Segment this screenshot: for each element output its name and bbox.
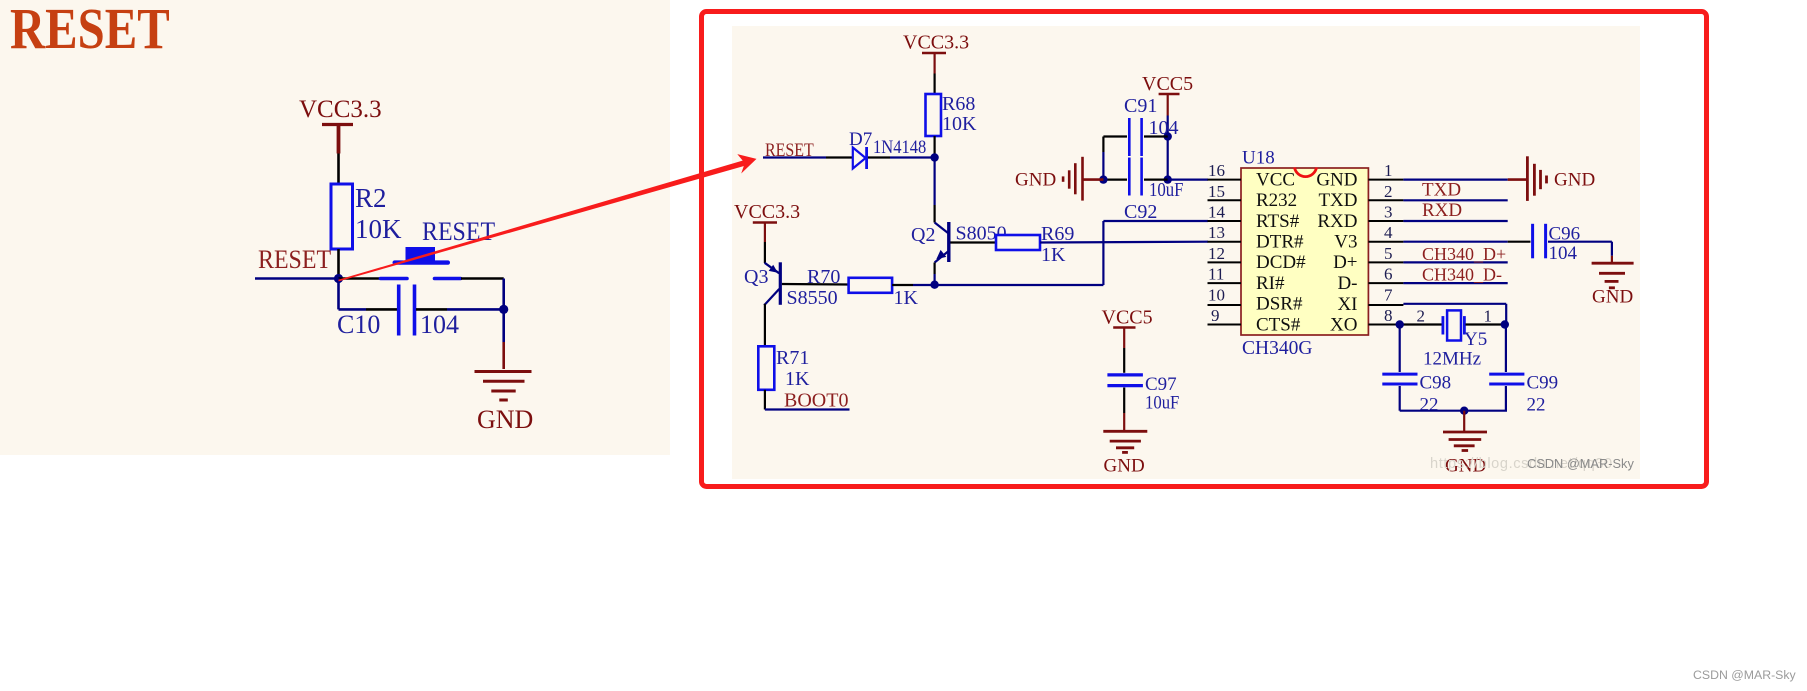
wire pin5 D+ xyxy=(1403,261,1507,263)
svg-text:U18: U18 xyxy=(1242,148,1275,169)
pin name DTR# xyxy=(1256,232,1304,253)
wire pin4 to C96 xyxy=(1403,241,1530,243)
svg-text:CH340_D+: CH340_D+ xyxy=(1422,244,1506,264)
annotation red box xyxy=(702,12,1707,487)
junction crystal left xyxy=(1396,320,1404,328)
wire diode to junction xyxy=(868,156,935,158)
capacitor C10 104 xyxy=(337,285,459,340)
background sheet left xyxy=(0,0,670,455)
svg-text:10K: 10K xyxy=(355,214,402,244)
svg-text:R71: R71 xyxy=(776,347,809,369)
wire Q3 collector down xyxy=(764,304,766,347)
junction diode-R68 xyxy=(930,153,938,161)
background sheet right xyxy=(732,26,1640,479)
pin number 9 xyxy=(1211,306,1220,325)
wire pin2 TXD xyxy=(1403,199,1507,201)
pin name XO xyxy=(1330,315,1357,336)
wire crystal loop bottom xyxy=(1400,410,1507,412)
resistor R68 10K xyxy=(926,93,978,136)
svg-text:CSDN @MAR-Sky: CSDN @MAR-Sky xyxy=(1693,668,1797,682)
wire pin7 to crystal right xyxy=(1403,304,1506,325)
diode D7 1N4148 xyxy=(849,129,926,169)
svg-text:CH340_D-: CH340_D- xyxy=(1422,265,1502,285)
pin number 13 xyxy=(1208,223,1225,242)
wire Q3 base to R70 xyxy=(782,283,849,286)
net label RESET left xyxy=(258,246,331,274)
svg-text:4: 4 xyxy=(1384,223,1393,242)
wire junction to Q2 collector xyxy=(933,158,935,223)
svg-text:XI: XI xyxy=(1337,294,1357,315)
wire VCC to R68 xyxy=(933,74,935,95)
wire VCC5 to C97 xyxy=(1123,348,1125,373)
svg-text:Q2: Q2 xyxy=(911,224,935,246)
wire pin3 RXD xyxy=(1403,220,1507,222)
wire R2 to node xyxy=(337,249,340,279)
svg-text:104: 104 xyxy=(420,310,459,339)
pin number 16 xyxy=(1208,161,1225,180)
ground GND bar right xyxy=(1508,156,1595,201)
resistor R71 1K xyxy=(758,346,810,390)
wire node to button xyxy=(339,277,380,280)
pin name D- xyxy=(1337,273,1357,294)
ground GND left xyxy=(475,342,534,434)
power VCC3.3 Q3 xyxy=(734,201,800,263)
svg-text:DCD#: DCD# xyxy=(1256,252,1306,273)
pin number 8 xyxy=(1384,306,1393,325)
pin name CTS# xyxy=(1256,314,1301,335)
svg-text:10K: 10K xyxy=(942,113,977,135)
pushbutton RESET xyxy=(381,218,496,278)
wire pin8 to crystal xyxy=(1403,323,1442,325)
svg-text:GND: GND xyxy=(1592,286,1633,307)
svg-text:1: 1 xyxy=(1484,306,1493,325)
svg-text:RESET: RESET xyxy=(10,0,170,61)
svg-text:GND: GND xyxy=(1316,169,1357,190)
svg-text:VCC5: VCC5 xyxy=(1142,73,1193,95)
capacitor C97 10uF xyxy=(1107,374,1179,413)
svg-text:5: 5 xyxy=(1384,244,1393,263)
wire crystal loop right xyxy=(1505,325,1507,411)
svg-text:RTS#: RTS# xyxy=(1256,211,1300,232)
svg-text:C98: C98 xyxy=(1420,373,1452,394)
junction crystal right xyxy=(1501,320,1509,328)
pin name RI# xyxy=(1256,273,1285,294)
pin number 12 xyxy=(1208,244,1225,263)
annotation arrow xyxy=(338,154,756,281)
svg-text:1: 1 xyxy=(1384,161,1393,180)
wire R69 to pin13 xyxy=(1040,241,1208,244)
svg-text:VCC3.3: VCC3.3 xyxy=(734,201,800,223)
junction C92 left xyxy=(1099,175,1107,183)
pin name TXD xyxy=(1318,190,1357,211)
svg-text:CH340G: CH340G xyxy=(1242,338,1312,359)
svg-text:BOOT0: BOOT0 xyxy=(784,390,848,412)
capacitor C92 10uF xyxy=(1124,158,1184,224)
wire crystal to junction right xyxy=(1466,323,1505,325)
svg-text:RXD: RXD xyxy=(1422,200,1462,221)
title RESET xyxy=(10,0,170,61)
pin number 7 xyxy=(1384,285,1393,304)
power VCC3.3 left xyxy=(299,96,382,154)
svg-text:DTR#: DTR# xyxy=(1256,232,1304,253)
svg-text:CTS#: CTS# xyxy=(1256,314,1301,335)
svg-text:VCC3.3: VCC3.3 xyxy=(903,32,969,54)
svg-text:9: 9 xyxy=(1211,306,1220,325)
pin number 1 xyxy=(1384,161,1393,180)
svg-text:D+: D+ xyxy=(1333,252,1357,273)
net label TXD xyxy=(1422,179,1461,200)
svg-text:GND: GND xyxy=(1015,169,1056,190)
pin number 4 xyxy=(1384,223,1393,242)
wire to ground xyxy=(502,309,505,342)
svg-text:GND: GND xyxy=(477,405,533,434)
svg-text:1K: 1K xyxy=(894,287,919,309)
svg-text:GND: GND xyxy=(1104,456,1145,477)
svg-text:VCC3.3: VCC3.3 xyxy=(299,96,382,123)
junction C91 right xyxy=(1164,132,1172,140)
pin number 15 xyxy=(1208,182,1225,201)
svg-text:Q3: Q3 xyxy=(744,266,768,288)
capacitor C99 22 xyxy=(1489,373,1558,416)
svg-text:10uF: 10uF xyxy=(1149,179,1184,201)
svg-text:6: 6 xyxy=(1384,265,1393,284)
resistor R69 1K xyxy=(996,223,1074,266)
wire C96 to ground xyxy=(1548,242,1612,256)
pin name RXD xyxy=(1317,211,1357,232)
watermark faint url xyxy=(1430,456,1613,472)
svg-text:15: 15 xyxy=(1208,182,1225,201)
svg-text:DSR#: DSR# xyxy=(1256,294,1303,315)
junction node RESET xyxy=(334,274,343,283)
svg-text:R68: R68 xyxy=(942,93,975,115)
wire VCC3.3 to R2 xyxy=(337,154,340,185)
svg-text:3: 3 xyxy=(1384,203,1393,222)
wire crystal loop left xyxy=(1399,325,1401,411)
svg-text:S8550: S8550 xyxy=(787,287,838,309)
ground GND bar left xyxy=(1015,157,1103,201)
svg-text:104: 104 xyxy=(1549,243,1578,264)
svg-text:2: 2 xyxy=(1417,306,1426,325)
svg-text:V3: V3 xyxy=(1334,232,1357,253)
pin name R232 xyxy=(1256,190,1297,211)
svg-text:XO: XO xyxy=(1330,315,1357,336)
svg-text:D7: D7 xyxy=(849,129,872,150)
capacitor C91 104 xyxy=(1124,95,1179,156)
transistor Q2 S8050 xyxy=(911,222,1007,263)
capacitor C98 22 xyxy=(1382,373,1451,416)
svg-text:R2: R2 xyxy=(355,183,387,213)
ground GND C96 xyxy=(1592,256,1634,307)
svg-text:11: 11 xyxy=(1208,265,1224,284)
svg-text:2: 2 xyxy=(1384,182,1393,201)
wire cap to corner xyxy=(416,308,504,311)
svg-text:C92: C92 xyxy=(1124,201,1157,223)
junction cap-gnd xyxy=(499,305,508,314)
crystal Y5 12MHz xyxy=(1417,306,1493,369)
svg-text:12MHz: 12MHz xyxy=(1423,348,1481,369)
svg-text:10: 10 xyxy=(1208,285,1225,304)
svg-text:8: 8 xyxy=(1384,306,1393,325)
wire C92 row xyxy=(1103,179,1208,181)
svg-text:7: 7 xyxy=(1384,285,1393,304)
pin name VCC xyxy=(1256,169,1295,190)
wire pin1 to GND xyxy=(1403,179,1507,181)
junction crystal gnd xyxy=(1460,407,1468,415)
wire R68 to junction xyxy=(933,136,935,158)
wire RESET stub xyxy=(255,277,339,280)
net label RESET right xyxy=(765,139,814,161)
svg-text:RESET: RESET xyxy=(258,246,331,274)
svg-text:TXD: TXD xyxy=(1422,179,1461,200)
wire Q2 base to R69 xyxy=(950,241,996,243)
net label RXD xyxy=(1422,200,1462,221)
svg-text:C99: C99 xyxy=(1527,373,1559,394)
pin name DSR# xyxy=(1256,294,1303,315)
power VCC3.3 R68 xyxy=(903,32,969,74)
pin number 10 xyxy=(1208,285,1225,304)
svg-text:1K: 1K xyxy=(785,368,810,390)
wire VCC5 down xyxy=(1167,116,1169,137)
wire node down to cap row xyxy=(339,279,398,310)
wire C91 row xyxy=(1103,137,1167,180)
svg-text:22: 22 xyxy=(1527,395,1546,416)
annotation red arc on U18 xyxy=(1295,168,1317,177)
transistor Q3 S8550 xyxy=(744,262,838,309)
resistor R70 1K xyxy=(807,266,919,309)
svg-text:C91: C91 xyxy=(1124,95,1157,117)
junction Q2 emitter xyxy=(930,281,938,289)
wire C97 to ground xyxy=(1123,388,1125,414)
power VCC5 bottom xyxy=(1102,307,1153,349)
net label CH340_D+ xyxy=(1422,244,1506,264)
pin number 2 xyxy=(1384,182,1393,201)
svg-text:R70: R70 xyxy=(807,266,840,288)
wire RESET to diode xyxy=(763,156,853,158)
pin name RTS# xyxy=(1256,211,1300,232)
svg-text:12: 12 xyxy=(1208,244,1225,263)
junction C92 right xyxy=(1164,175,1172,183)
pin number 11 xyxy=(1208,265,1224,284)
ground GND crystal xyxy=(1443,411,1487,477)
pin name GND xyxy=(1316,169,1357,190)
svg-text:RI#: RI# xyxy=(1256,273,1285,294)
ground GND C97 xyxy=(1103,413,1147,477)
svg-text:13: 13 xyxy=(1208,223,1225,242)
wire R70 to riser xyxy=(892,284,1103,286)
wire button to corner xyxy=(461,279,504,310)
IC U18 CH340G xyxy=(1208,148,1404,360)
svg-text:22: 22 xyxy=(1420,395,1439,416)
svg-text:VCC: VCC xyxy=(1256,169,1295,190)
svg-text:GND: GND xyxy=(1554,169,1595,190)
pin name DCD# xyxy=(1256,252,1306,273)
svg-text:VCC5: VCC5 xyxy=(1102,307,1153,329)
wire R71 to BOOT0 xyxy=(765,390,850,410)
svg-text:D-: D- xyxy=(1337,273,1357,294)
wire pin6 D- xyxy=(1403,282,1507,284)
svg-text:R232: R232 xyxy=(1256,190,1297,211)
svg-text:14: 14 xyxy=(1208,203,1226,222)
net label CH340_D- xyxy=(1422,265,1502,285)
svg-text:RESET: RESET xyxy=(422,218,495,246)
wire riser to pin14 xyxy=(1103,221,1208,285)
svg-text:TXD: TXD xyxy=(1318,190,1357,211)
wire Q2 emitter down xyxy=(933,263,935,285)
svg-text:Y5: Y5 xyxy=(1464,329,1487,350)
watermark csdn inside box xyxy=(1527,456,1634,471)
svg-text:CSDN @MAR-Sky: CSDN @MAR-Sky xyxy=(1527,456,1634,471)
pin name D+ xyxy=(1333,252,1357,273)
svg-text:C10: C10 xyxy=(337,310,380,339)
svg-text:RXD: RXD xyxy=(1317,211,1357,232)
svg-text:1N4148: 1N4148 xyxy=(873,136,926,157)
capacitor C96 104 xyxy=(1533,223,1581,263)
pin number 14 xyxy=(1208,203,1226,222)
resistor R2 10K xyxy=(331,183,402,249)
pin number 5 xyxy=(1384,244,1393,263)
pin number 6 xyxy=(1384,265,1393,284)
wire C91 junction down xyxy=(1167,137,1169,180)
svg-text:1K: 1K xyxy=(1041,244,1066,266)
watermark csdn corner xyxy=(1693,668,1797,682)
pin number 3 xyxy=(1384,203,1393,222)
net label BOOT0 xyxy=(784,390,848,412)
pin name V3 xyxy=(1334,232,1357,253)
svg-text:16: 16 xyxy=(1208,161,1225,180)
svg-text:10uF: 10uF xyxy=(1145,392,1179,413)
power VCC5 top xyxy=(1142,73,1193,116)
pin name XI xyxy=(1337,294,1357,315)
